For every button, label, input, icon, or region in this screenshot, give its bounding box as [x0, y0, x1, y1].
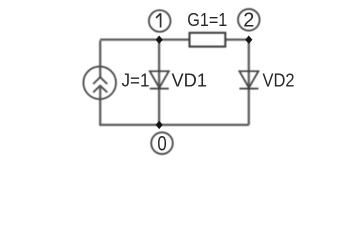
node 1 number [156, 13, 161, 27]
junction dot node 1 [156, 36, 163, 44]
node 1 circle [149, 10, 171, 32]
svg-text:G1=1: G1=1 [187, 10, 227, 30]
wire VD1 column through diode [158, 40, 160, 89]
junction dot bottom node 0 [156, 121, 163, 129]
diode VD2 triangle [239, 71, 258, 88]
node 2 circle [238, 9, 260, 31]
wire top rail left segment [100, 38, 190, 40]
diode VD1 cathode bar [150, 88, 169, 90]
current source J1 circle [83, 67, 116, 100]
resistor G1 body [190, 33, 226, 47]
wire VD2 column through diode [248, 40, 250, 89]
wire left column upper [99, 41, 101, 67]
svg-text:VD1: VD1 [172, 71, 208, 91]
current source J1 arrowhead 2 [93, 86, 107, 93]
diode VD1 triangle [150, 71, 169, 88]
diode VD2 cathode bar [239, 88, 258, 90]
wire bottom rail [99, 124, 249, 126]
svg-text:0: 0 [157, 133, 166, 156]
current source J1 arrow shaft top [99, 67, 101, 78]
node 0 circle [151, 132, 173, 154]
wire VD1 column lower [158, 89, 160, 125]
svg-text:2: 2 [243, 10, 254, 32]
wire top rail right segment [225, 38, 249, 40]
svg-text:VD2: VD2 [263, 71, 295, 91]
wire VD2 column lower [248, 89, 250, 125]
junction dot node 2 [245, 36, 252, 44]
current source J1 arrowhead 1 [93, 77, 107, 84]
wire left column lower [99, 99, 101, 125]
svg-text:J=1: J=1 [122, 71, 150, 91]
current source J1 arrow shaft bottom [99, 86, 101, 99]
